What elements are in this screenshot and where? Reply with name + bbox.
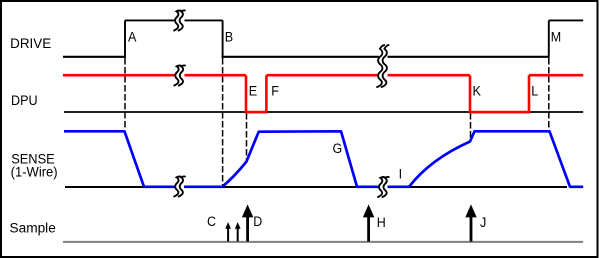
svg-text:L: L xyxy=(531,83,538,99)
svg-text:C: C xyxy=(207,214,216,230)
svg-text:B: B xyxy=(225,30,233,46)
svg-text:I: I xyxy=(399,166,403,182)
svg-text:D: D xyxy=(253,214,262,230)
svg-text:E: E xyxy=(249,83,257,99)
svg-text:J: J xyxy=(480,215,486,231)
svg-text:M: M xyxy=(551,30,561,46)
svg-text:K: K xyxy=(473,83,482,99)
svg-text:A: A xyxy=(128,30,137,46)
svg-text:Sample: Sample xyxy=(10,220,56,236)
svg-text:DPU: DPU xyxy=(11,93,38,109)
svg-text:F: F xyxy=(271,83,279,99)
svg-text:(1-Wire): (1-Wire) xyxy=(11,165,58,181)
svg-text:G: G xyxy=(332,141,342,157)
svg-text:H: H xyxy=(377,215,386,231)
svg-text:DRIVE: DRIVE xyxy=(10,36,51,52)
